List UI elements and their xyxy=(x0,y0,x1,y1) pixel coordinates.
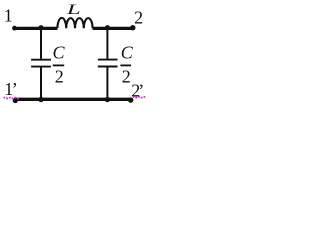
svg-text:2: 2 xyxy=(122,67,131,87)
svg-text:C: C xyxy=(52,43,65,63)
svg-text:2: 2 xyxy=(134,8,143,28)
svg-text:L: L xyxy=(66,1,81,17)
svg-text:2: 2 xyxy=(55,67,64,87)
svg-text:’: ’ xyxy=(12,79,18,99)
svg-text:1: 1 xyxy=(4,6,13,26)
svg-text:C: C xyxy=(121,43,134,63)
